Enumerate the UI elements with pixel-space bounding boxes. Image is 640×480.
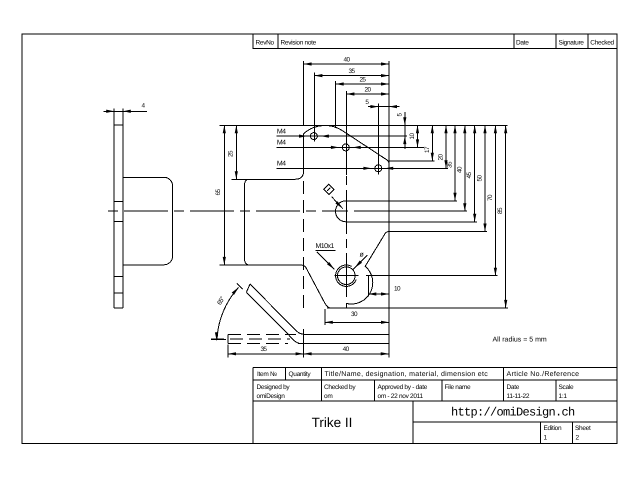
svg-text:Checked: Checked [590,40,614,47]
svg-text:om - 22 nov 2011: om - 22 nov 2011 [378,393,424,400]
svg-text:65: 65 [215,189,222,196]
bottom dim 10 [368,276,401,297]
svg-text:10: 10 [409,133,416,140]
svg-text:Scale: Scale [559,384,574,391]
svg-text:Approved by - date: Approved by - date [378,384,428,391]
svg-text:35: 35 [349,68,356,75]
dim 5 vertical (hole row) [397,112,407,149]
svg-text:35: 35 [260,346,267,353]
svg-text:http://omiDesign.ch: http://omiDesign.ch [451,406,575,420]
svg-text:25: 25 [359,77,366,84]
svg-text:om: om [324,393,332,400]
title: edition/sheet [544,425,591,442]
M4 label 1 [277,128,407,136]
svg-text:20: 20 [365,87,372,94]
svg-text:omiDesign: omiDesign [257,393,286,400]
svg-text:Designed by: Designed by [257,384,291,391]
svg-text:Date: Date [507,384,520,391]
left dim 25 [228,125,238,179]
front view bottom-left diagonal [249,265,331,308]
svg-text:Quantity: Quantity [289,371,312,378]
side view boss [123,177,173,264]
svg-text:Article No./Reference: Article No./Reference [507,370,580,378]
title: url [451,406,575,420]
title block texts row1 [257,370,579,378]
flag symbol (slot) [324,184,343,209]
bottom view dim 35 and 40 [228,329,389,358]
slot [336,201,478,222]
right chain dim 85 [497,125,507,308]
angle dim 65 [211,287,239,341]
title block lines [253,367,617,443]
svg-text:50: 50 [477,175,484,182]
M4 hole 3 [363,165,393,172]
right chain dim 45 [466,125,476,222]
svg-text:M4: M4 [277,161,286,168]
top dim 5 horizontal [365,99,399,174]
slot centerline [354,210,467,212]
svg-text:Date: Date [516,40,529,47]
diameter leader (M10) [353,252,367,270]
bend line (dashed) [303,181,305,308]
bent tab extension line [237,283,243,289]
left dim 65 [215,125,226,265]
M4 label 2 [277,140,424,148]
svg-text:M10x1: M10x1 [316,243,335,250]
svg-text:M4: M4 [277,140,286,147]
svg-text:Item №: Item № [257,371,277,378]
M10 hole [335,264,359,289]
front view right edge (and extension) [388,61,390,358]
front view tab left edge + step [220,134,304,265]
side view bar ticks [114,201,123,293]
svg-text:20: 20 [438,154,445,161]
bottom view solid strip [298,334,389,343]
right chain dim 20 [438,125,448,168]
M10 centerline [345,176,347,300]
front view top-right chamfer diagonal [304,126,389,165]
dim 4 (plate thickness) [104,102,148,125]
svg-text:10: 10 [394,286,401,293]
svg-text:1:1: 1:1 [559,393,568,400]
M4 hole 1 [299,133,329,140]
bottom view dashed strip [211,334,296,343]
svg-text:11-11-22: 11-11-22 [507,393,530,400]
top dim 20 [346,87,389,175]
M10 label [316,243,336,270]
svg-text:85: 85 [497,207,504,214]
right chain dim 10 [409,125,419,147]
top dim 35 [314,68,389,141]
chain top reference line [389,124,508,126]
front view top edge [219,124,389,126]
M4 label 3 [277,161,448,169]
svg-text:Checked by: Checked by [324,384,356,391]
page frame [22,34,617,444]
svg-text:Title/Name, designation, mater: Title/Name, designation, material, dimen… [325,370,489,378]
svg-text:All radius = 5 mm: All radius = 5 mm [493,335,547,343]
svg-text:M4: M4 [277,128,286,135]
svg-text:Trike II: Trike II [312,415,353,430]
svg-text:File name: File name [445,384,472,391]
front view bottom edge + 85 ext [327,307,508,309]
right chain dim 70 [366,125,498,275]
bottom view bent tab [246,284,305,344]
right chain dim 50 [389,125,487,231]
svg-text:35: 35 [447,161,454,168]
note: all radius [493,335,547,343]
svg-text:30: 30 [351,311,358,318]
svg-text:Revision note: Revision note [281,40,317,47]
revision table [253,34,617,48]
svg-text:Signature: Signature [559,40,585,47]
top dim 25 [336,77,389,128]
svg-text:40: 40 [344,57,351,64]
svg-text:Edition: Edition [544,425,562,432]
svg-text:45: 45 [466,172,473,179]
svg-text:40: 40 [343,346,350,353]
right chain dim 40 [456,125,466,211]
svg-text:25: 25 [228,150,235,157]
title: part name [312,415,353,430]
svg-text:Sheet: Sheet [575,425,591,432]
top dim 40 [304,57,389,126]
M4 hole 2 [331,144,361,151]
right chain dim 35 [447,125,457,201]
svg-text:17: 17 [424,146,431,153]
title block texts row2 [257,384,574,400]
svg-text:40: 40 [456,166,463,173]
right chain dim 17 [389,125,435,161]
side view centerline [108,210,348,212]
bottom dim 30 [325,309,389,325]
side view plate bar [114,125,123,308]
front view right diagonal to arc [347,232,389,309]
svg-text:RevNo: RevNo [256,40,275,47]
svg-text:70: 70 [487,194,494,201]
